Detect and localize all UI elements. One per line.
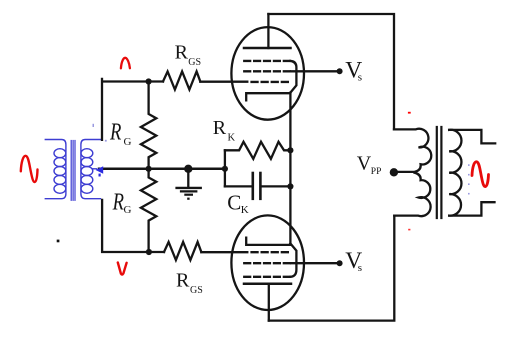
svg-text:R: R xyxy=(213,117,227,139)
tube V1 screen grid dashes row1 xyxy=(244,60,289,62)
tube V2 screen bracket xyxy=(290,244,296,277)
resistor R_G (bottom) xyxy=(141,169,156,252)
tube V2 screen grid dashes row2 xyxy=(244,262,289,264)
svg-text:R: R xyxy=(112,188,124,215)
svg-text:GS: GS xyxy=(190,285,203,296)
tube V1 envelope (top) xyxy=(231,27,304,120)
red artifact dash near transformer top xyxy=(408,112,411,114)
transformer T2 core xyxy=(436,127,438,218)
terminal dot Vs (top) xyxy=(337,68,343,74)
svg-text:K: K xyxy=(228,133,236,144)
wire: center tap bus xyxy=(99,168,225,171)
ground xyxy=(184,165,192,173)
svg-text:PP: PP xyxy=(371,167,382,177)
tube V2 cathode xyxy=(246,238,290,245)
node D (junction dot R_K-C_K left) xyxy=(222,166,228,172)
node A (junction dot top) xyxy=(146,78,152,84)
resistor R_GS (top) xyxy=(163,72,200,90)
faint blue dotted artifacts xyxy=(93,124,470,195)
center-tap arrow marker (blue) xyxy=(96,166,104,174)
tube V1 plate xyxy=(267,14,269,48)
svg-text:s: s xyxy=(358,262,362,274)
node E (junction dot R_K right) xyxy=(287,147,293,153)
wire: secondary bottom terminal xyxy=(449,202,494,215)
terminal dot Vs (bottom) xyxy=(337,260,343,266)
wire: bottom rail plate to output transformer xyxy=(269,216,395,321)
svg-text:R: R xyxy=(175,41,189,63)
svg-text:G: G xyxy=(124,136,132,148)
tube V1 screen grid dashes row2 xyxy=(244,70,289,72)
stray dot artifact xyxy=(57,240,60,243)
red artifact dash near transformer bottom xyxy=(408,229,410,231)
transformer T1 secondary coil (blue) xyxy=(81,140,101,199)
wire: secondary top terminal xyxy=(449,130,495,144)
svg-text:V: V xyxy=(357,153,372,175)
tube V1 control grid dashes row3 xyxy=(252,81,288,83)
svg-text:s: s xyxy=(358,71,362,83)
tube V1 cathode xyxy=(246,93,290,100)
svg-text:G: G xyxy=(124,204,132,216)
transformer T2 secondary coil xyxy=(449,130,461,216)
resistor R_GS (bottom) xyxy=(164,242,201,260)
transformer T2 primary coil bottom half xyxy=(394,173,430,217)
tube V2 control grid dashes xyxy=(252,251,288,253)
wire: secondary bottom lead corner to bottom grid node xyxy=(102,200,164,252)
output sine (red) xyxy=(472,162,489,187)
svg-text:C: C xyxy=(227,191,241,215)
svg-text:K: K xyxy=(241,204,249,216)
transformer T2 primary coil top half xyxy=(394,129,431,172)
red phase mark bottom (V) xyxy=(118,263,127,275)
svg-text:R: R xyxy=(176,269,190,291)
wire: R_GS to bottom tube grid xyxy=(201,251,247,253)
transformer T1 core (blue) xyxy=(71,141,75,201)
resistor R_G (top) xyxy=(141,82,156,169)
wire: V2 screen to Vs terminal xyxy=(291,262,340,264)
wire: R_K / C_K left connector xyxy=(224,150,226,186)
node C (junction dot bottom-left) xyxy=(146,249,152,255)
wire: cathode bus between tubes xyxy=(289,93,291,245)
capacitor C_K xyxy=(225,185,252,187)
wire: secondary top lead down-corner to grid node xyxy=(102,79,163,140)
resistor R_K xyxy=(225,142,291,159)
wire: top rail plate to output transformer xyxy=(268,14,394,129)
input source sine (red) xyxy=(21,156,38,182)
tube V1 screen bracket xyxy=(290,61,296,93)
terminal dot V_PP (center tap) xyxy=(390,168,398,176)
wire: V1 screen to Vs terminal xyxy=(291,70,340,72)
node B (junction dot mid-left) xyxy=(146,166,152,172)
svg-text:GS: GS xyxy=(188,57,201,68)
tube V2 screen grid dashes row3 xyxy=(244,276,289,278)
tube V2 envelope (bottom) xyxy=(231,215,304,310)
transformer T1 primary coil (blue) xyxy=(45,140,66,199)
tube V2 plate xyxy=(244,283,291,286)
node F (junction dot C_K right) xyxy=(287,183,293,189)
wire: R_GS to top tube grid xyxy=(200,81,247,83)
red phase mark top (caret) xyxy=(121,58,130,69)
svg-text:R: R xyxy=(109,118,121,145)
